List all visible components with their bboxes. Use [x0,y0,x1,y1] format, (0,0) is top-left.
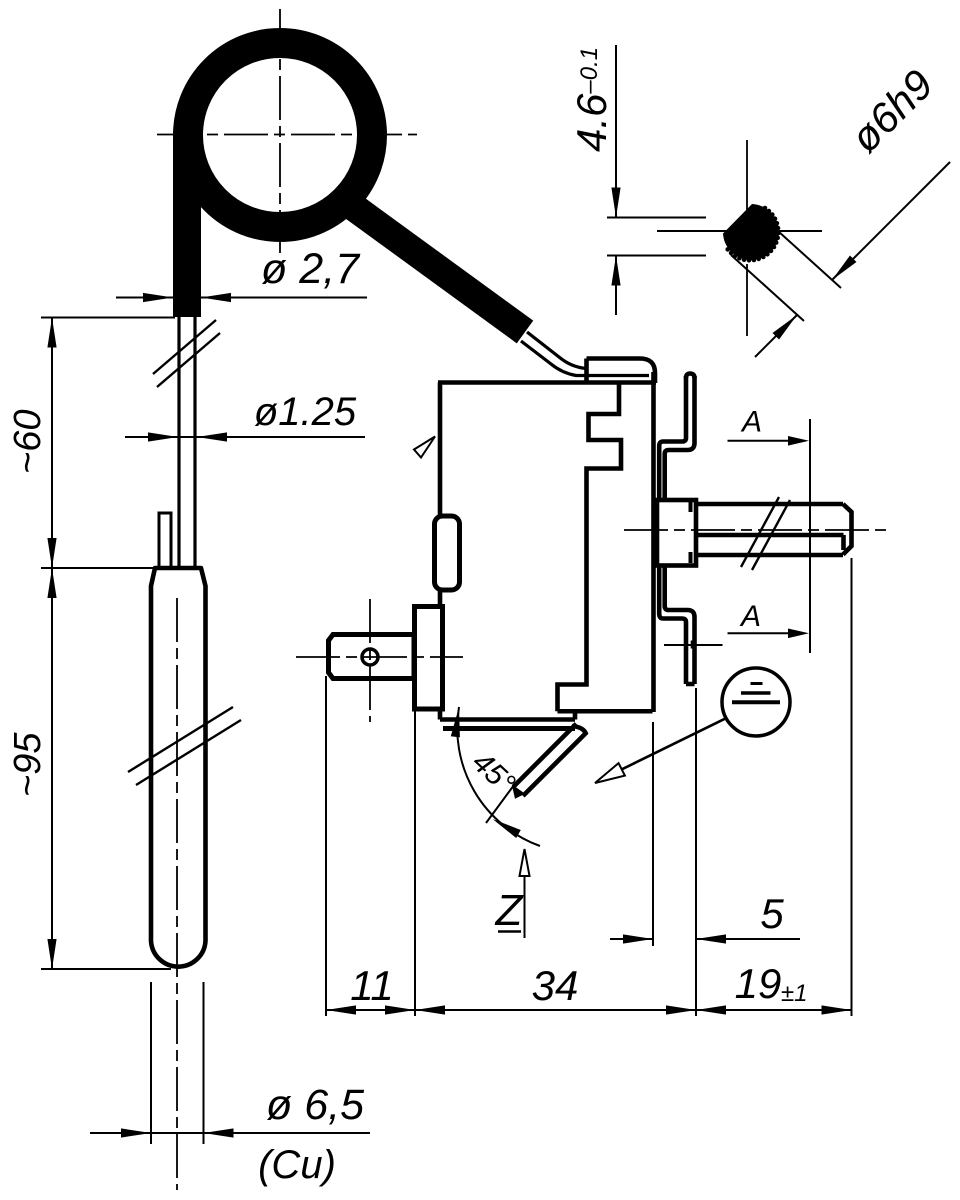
svg-text:ø 6,5: ø 6,5 [266,1081,365,1129]
knurl serrations [763,206,768,211]
side button on body left [435,516,460,590]
dimension line 11/34/19 [326,1009,852,1011]
sensor bulb [151,568,206,967]
bulb fill stub tube [159,513,171,568]
dimension 5 [610,722,800,946]
shaft centerline [624,529,888,531]
coil right diagonal leg (protective sleeve) [348,203,525,332]
plunger hole [362,649,378,665]
svg-text:A: A [739,600,761,633]
surface mark open triangle at body left [414,437,435,458]
plunger pin [329,635,415,679]
capillary tube holder on body top [587,359,656,384]
plunger hole centerline vertical [369,599,371,722]
svg-text:11: 11 [350,962,394,1009]
svg-text:±1: ±1 [781,980,808,1007]
break symbol on capillary [153,320,216,374]
section A-A line [809,419,811,653]
dimension ~95 [7,568,171,969]
dimension ø 2,7 [116,245,367,302]
svg-text:Z: Z [495,886,525,935]
detail: shaft cross-section (knurled, flatted) [657,140,822,336]
capillary coil loop [188,43,372,227]
svg-text:34: 34 [532,962,579,1009]
svg-text:~95: ~95 [7,732,49,797]
svg-text:ø 2,7: ø 2,7 [261,245,361,293]
svg-text:ø1.25: ø1.25 [254,390,357,434]
thin capillary diagonal into body [527,332,586,369]
thin capillary tube (vertical) [177,317,180,568]
ground symbol circle [722,668,790,736]
svg-text:5: 5 [760,890,784,937]
svg-text:19: 19 [735,960,782,1007]
dimension 4.6-0.1 [568,45,706,315]
D-shaped shaft section fill [723,204,779,260]
blade extension line [486,785,514,823]
svg-text:A: A [740,406,762,439]
svg-text:~60: ~60 [7,410,49,474]
terminal plate under body [443,726,575,731]
break symbol on shaft [741,497,779,567]
svg-text:(Cu): (Cu) [258,1143,336,1187]
actuator shaft [696,504,852,555]
break symbol on bulb [128,707,233,772]
shaft collar / bushing [657,500,696,566]
coil left leg (thick capillary sleeve) [173,138,201,317]
sensor bulb centerline [176,598,178,1190]
section A-A upper arrow [728,406,810,446]
switch body outline [438,372,656,720]
bracket hole center mark [664,641,723,649]
switch body inner contour [558,383,622,711]
plunger centerline horizontal [296,656,463,658]
terminal blade at 45 deg [523,726,586,796]
capillary coil centerline vertical [279,9,281,253]
Z leader [524,853,526,938]
dimension ø6h9 [731,60,950,357]
45 deg angle arc [457,707,540,846]
bracket hole edges in collar [689,501,693,512]
plunger boss [415,607,443,710]
dimension ø 6,5 [90,982,370,1144]
dimension ~60 [7,318,175,569]
section A-A lower arrow [728,600,810,638]
ground leader [598,718,726,781]
dimension ø1.25 [125,390,365,442]
capillary coil centerline horizontal [157,134,417,136]
mounting bracket (sheet, edge view) [659,376,686,684]
blob centerlines [746,140,748,336]
dimension 11 / 34 / 19±1 extension lines [325,676,327,1016]
